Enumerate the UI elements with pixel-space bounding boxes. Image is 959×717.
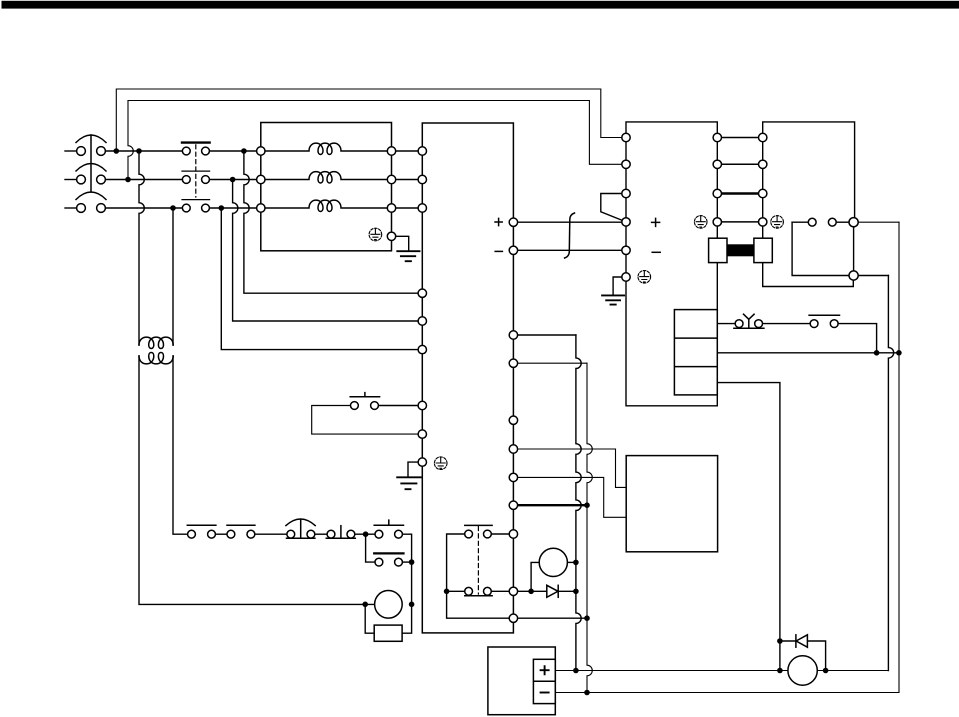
terminal column1 circles bbox=[622, 133, 630, 281]
transformer T1 primary bbox=[139, 337, 173, 348]
junction fan diode bbox=[777, 638, 783, 644]
junction NC right node bbox=[874, 350, 880, 356]
emergency stop S3 bbox=[286, 519, 315, 538]
inductor L1 phase1 bbox=[265, 143, 387, 154]
wire NC contact down to node bbox=[838, 324, 877, 353]
battery terminal block bbox=[533, 659, 555, 703]
label minus left bbox=[495, 250, 502, 252]
wire DC minus link bbox=[518, 249, 622, 251]
wire transformer secondary left to motor row bbox=[139, 356, 375, 604]
wire drive aux to bus B at 618 bbox=[518, 617, 587, 619]
wire start button right down to motor bbox=[402, 534, 412, 633]
wire relay box lower output down to fan bbox=[717, 383, 780, 671]
wire diode D1 anode bbox=[518, 590, 547, 592]
wire fan diode anode bbox=[780, 640, 796, 642]
PE symbol column1 bbox=[638, 271, 651, 284]
start button S5 bbox=[374, 520, 403, 538]
battery minus label bbox=[540, 692, 550, 694]
wire aux contact right bbox=[402, 561, 411, 563]
wire mini-contactor B left stub bbox=[447, 590, 465, 592]
wire transformer secondary right to switch row bbox=[173, 356, 188, 534]
junction right bus node bbox=[896, 350, 902, 356]
wire connector link bbox=[836, 221, 849, 223]
wire drive terminal to bus B (hop over A) bbox=[518, 362, 587, 364]
ground earth column1 bbox=[602, 295, 624, 304]
wire fan diode cathode corner bbox=[807, 641, 825, 671]
fuse link body bbox=[727, 244, 754, 256]
junction bus A end bbox=[573, 668, 579, 674]
brake resistor R1 bbox=[374, 625, 402, 641]
wire row2 breaker to contactor bbox=[105, 179, 182, 181]
lamp HL1 bbox=[539, 548, 567, 576]
header bar bbox=[2, 1, 959, 9]
terminal column3 circles bbox=[759, 133, 767, 226]
wire aux contact loop left bbox=[366, 534, 375, 562]
wire row1 contactor to reactor bbox=[209, 150, 256, 152]
wire connector input left bbox=[792, 221, 808, 223]
NC contact right bbox=[809, 315, 839, 327]
wire top bus 1 from row1 to terminal column bbox=[116, 89, 622, 151]
inductor L1 phase3 bbox=[265, 200, 387, 211]
wire switch row seg3 bbox=[315, 533, 327, 535]
ground earth drive bbox=[397, 477, 420, 489]
circuit breaker QF1 bbox=[76, 135, 106, 212]
junction fan left bbox=[777, 668, 783, 674]
pushbutton S6 top bbox=[350, 393, 379, 410]
wire row3 breaker to contactor bbox=[105, 207, 182, 209]
contactor KM1 bbox=[182, 143, 210, 212]
junction thick wire bus B bbox=[584, 502, 590, 508]
wire row1 down to transformer primary (hops rows2,3) bbox=[139, 151, 144, 345]
label minus right bbox=[652, 251, 660, 253]
wire mini-contactor left loop bbox=[447, 534, 510, 618]
wire phase L1 input stub bbox=[65, 150, 77, 152]
wire reactor row3 to drive bbox=[396, 207, 418, 209]
transformer T1 secondary bbox=[139, 353, 173, 364]
junction row2 out bbox=[230, 177, 236, 183]
junction row3 transformer bbox=[170, 205, 176, 211]
diode D2 fan bbox=[796, 635, 808, 647]
wire row3 contactor to reactor bbox=[209, 207, 256, 209]
aux contact KA1 bbox=[374, 553, 403, 566]
junction row1 transformer bbox=[136, 148, 142, 154]
PE symbol reactor bbox=[369, 228, 382, 241]
junction lamp right bus A bbox=[573, 560, 579, 566]
NC contact S1 bbox=[187, 525, 216, 538]
wire connector A to right bus bbox=[858, 221, 899, 223]
junction diode bus A bbox=[573, 589, 579, 595]
reactor terminals right bbox=[387, 147, 395, 212]
wire column1 ground lead bbox=[613, 277, 622, 294]
motor M1 bbox=[375, 591, 403, 619]
junction fan right bbox=[823, 668, 829, 674]
label plus right bbox=[652, 218, 660, 226]
inductor L1 phase2 bbox=[265, 172, 387, 183]
battery plus label bbox=[540, 665, 550, 675]
wire column3 bus to connector bbox=[763, 122, 855, 222]
wire drive terminal to bus A bbox=[518, 334, 576, 336]
ground earth reactor bbox=[397, 251, 419, 261]
wire row1 breaker to contactor bbox=[105, 150, 182, 152]
rung row3 thick bbox=[717, 192, 762, 195]
wire connector left loop bbox=[792, 222, 849, 275]
wire switch row seg1 bbox=[215, 533, 227, 535]
break squiggle on DC link bbox=[565, 213, 575, 258]
PE symbol rung left bbox=[694, 216, 707, 229]
reactor terminals left bbox=[257, 147, 265, 212]
wire relay box to thermostat bbox=[717, 323, 735, 325]
reactor ground terminal bbox=[387, 232, 395, 240]
wire right inner bus vertical (hop at 352.8) bbox=[888, 276, 893, 671]
junction row1 out bbox=[241, 148, 247, 154]
wire row1 out to drive U-terminal (hops rows2,3) bbox=[244, 151, 418, 293]
junction row3 out bbox=[219, 205, 225, 211]
rung column2-column3 row1 bbox=[717, 137, 762, 139]
mini contactor KM2 contact B bbox=[465, 587, 492, 595]
wire column3 vertical down and up to connector B bbox=[763, 138, 854, 287]
wire connector A-B link bbox=[853, 222, 855, 275]
PE symbol drive bbox=[434, 457, 447, 470]
wire DC plus link bbox=[518, 221, 622, 223]
wire pushbutton left loop bbox=[312, 406, 418, 435]
wire reactor row1 to drive bbox=[396, 150, 418, 152]
relay terminal box bbox=[674, 310, 717, 395]
wire pushbutton right to drive bbox=[378, 405, 418, 407]
wire row2 out to drive V-terminal (hop row3) bbox=[233, 180, 419, 322]
wire drive to charger box input 2 bbox=[518, 477, 627, 517]
wire lamp right lead bbox=[567, 561, 576, 563]
wire reactor row2 to drive bbox=[396, 179, 418, 181]
wire switch row seg4 bbox=[355, 533, 375, 535]
PE symbol rung right bbox=[771, 216, 784, 229]
junction motor left bbox=[362, 602, 368, 608]
junction bus B at 618 bbox=[584, 615, 590, 621]
fan motor M2 bbox=[788, 656, 817, 685]
junction aux right bbox=[409, 559, 415, 565]
wire connector B to inner bus bbox=[858, 275, 888, 277]
drive left terminals bbox=[418, 147, 426, 467]
terminal column2 circles bbox=[713, 133, 721, 226]
wire motor resistor loop left bbox=[365, 604, 374, 633]
wire column2 vertical bbox=[716, 138, 718, 406]
mini contactor KM2 contact A bbox=[465, 525, 492, 594]
wire row3 down to transformer primary right bbox=[172, 208, 174, 345]
wire mini-contactor A to drive bbox=[491, 533, 509, 535]
wire terminal column1 vertical and bottom to column2 bbox=[626, 138, 717, 406]
wire phase L3 input stub bbox=[65, 207, 77, 209]
junction switch row bbox=[363, 531, 369, 537]
wire switch row seg2 bbox=[255, 533, 287, 535]
drive unit box bbox=[422, 123, 513, 633]
wire diode D1 cathode bbox=[558, 590, 576, 592]
label plus left bbox=[495, 218, 502, 225]
junction mini contactor loop bbox=[444, 589, 450, 595]
rung row4 bbox=[717, 221, 762, 223]
wire row2 contactor to reactor bbox=[209, 179, 256, 181]
wire lamp left lead bbox=[531, 562, 539, 591]
junction motor right bbox=[409, 602, 415, 608]
NC contact S2 bbox=[227, 525, 255, 538]
wire bus A vertical (hops) bbox=[576, 335, 581, 671]
wire right outer bus vertical bbox=[898, 222, 900, 692]
fuse link terminal left bbox=[709, 238, 727, 262]
wire reactor ground lead bbox=[396, 236, 409, 251]
wire terminal column1 top bus bbox=[626, 122, 717, 138]
wire relay box middle output to right bus bbox=[717, 352, 899, 354]
wire drive to charger box input 1 bbox=[518, 449, 627, 487]
wire fan motor to inner bus bbox=[817, 670, 888, 672]
junction row2 bus2 bbox=[125, 177, 131, 183]
rung row2 bbox=[717, 163, 762, 165]
wire drive PE lead bbox=[408, 462, 418, 477]
wire knife link on column1 bbox=[601, 194, 626, 222]
wire thermostat to NC contact bbox=[763, 323, 811, 325]
fuse link terminal right bbox=[754, 238, 772, 262]
wire bus B vertical (hops) bbox=[587, 363, 592, 692]
wire row3 out to drive W-terminal bbox=[221, 208, 418, 350]
junction bus B minus wire bbox=[584, 690, 590, 696]
wire thick drive to bus B bbox=[518, 504, 587, 506]
drive right terminals bbox=[509, 218, 517, 622]
diode D1 bbox=[547, 585, 558, 597]
junction lamp left bbox=[528, 589, 534, 595]
connector CN1 circles bbox=[808, 218, 858, 281]
wire battery minus to outer bus bbox=[555, 692, 899, 694]
switch S4 bbox=[326, 526, 355, 539]
wire top bus 2 from row2 to terminal column (hop over row1) bbox=[128, 101, 622, 180]
charger box bbox=[626, 456, 717, 552]
wire mini-contactor B to drive bbox=[491, 590, 509, 592]
battery box bbox=[488, 647, 555, 715]
line reactor box bbox=[261, 123, 392, 251]
junction row1 bus1 bbox=[114, 148, 120, 154]
wire phase L2 input stub bbox=[65, 179, 77, 181]
wire battery plus to fan motor (hop by bus B) bbox=[555, 670, 788, 672]
thermostat contact with Y bbox=[734, 314, 764, 328]
